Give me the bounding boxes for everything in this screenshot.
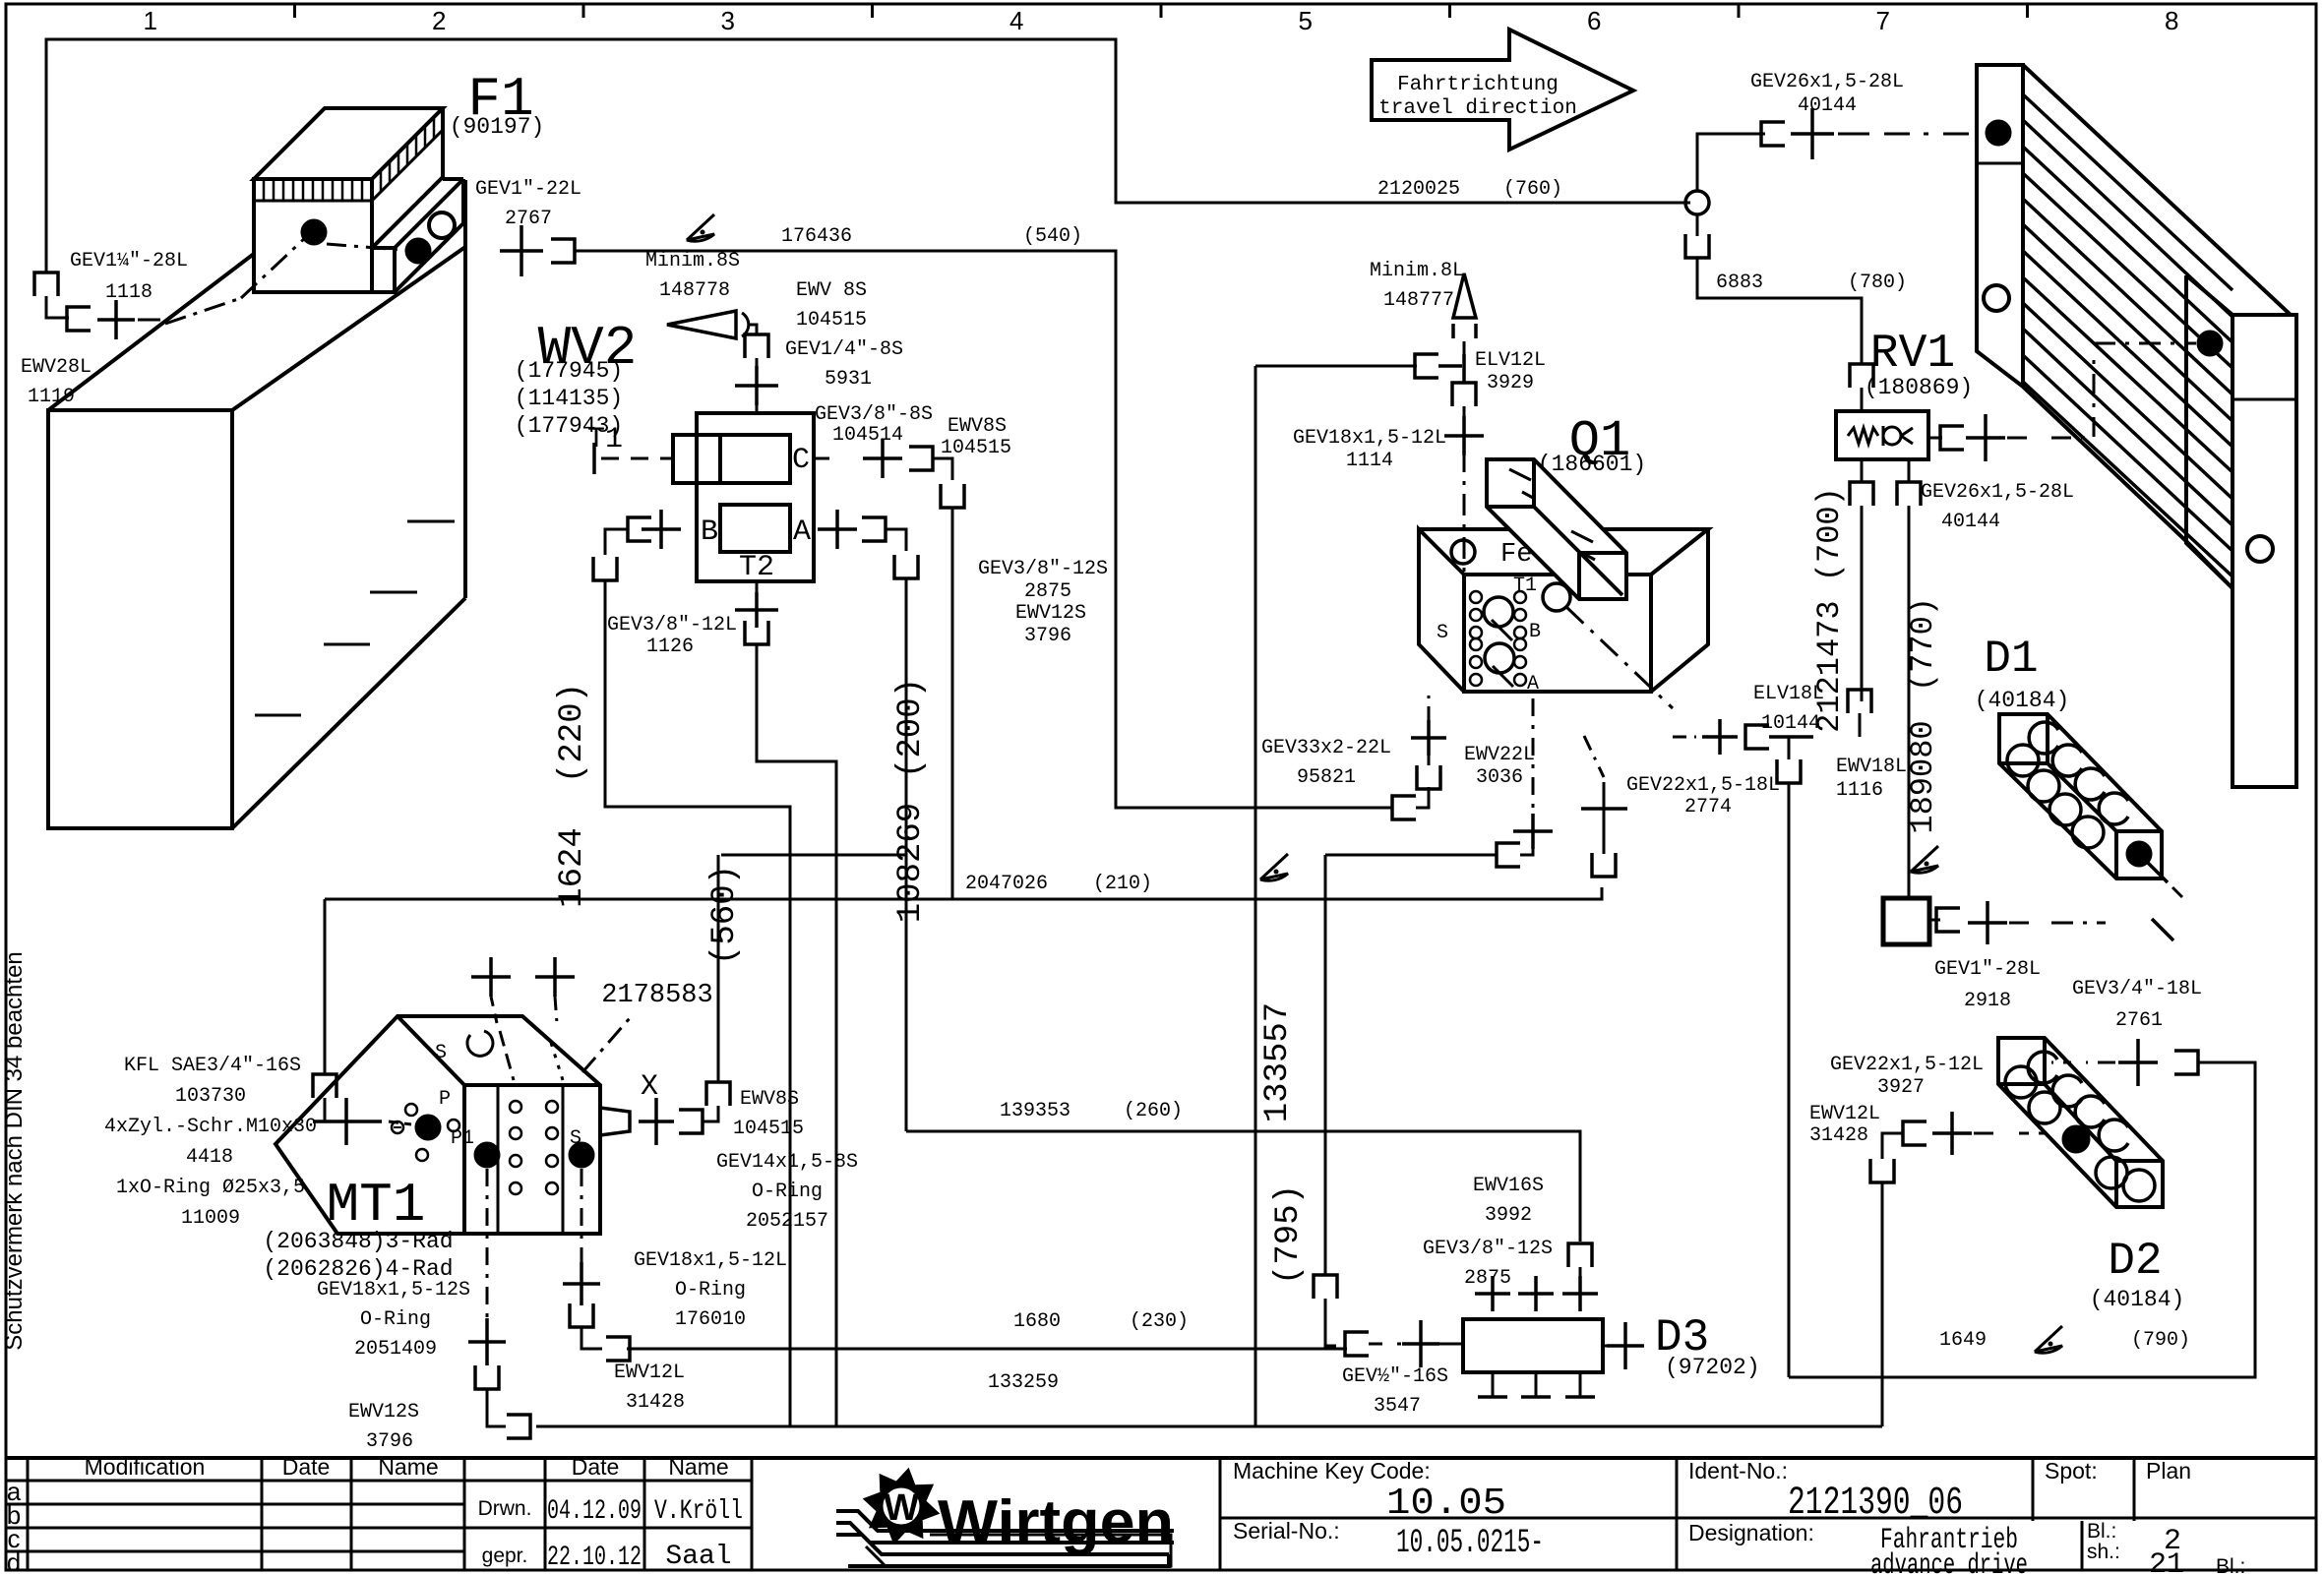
wire 189080 (770) [1908,506,1911,898]
tank top-right edge [232,247,465,410]
MT1 outline [275,1016,600,1234]
svg-text:148778: 148778 [659,279,730,302]
svg-text:(795): (795) [1270,1184,1308,1285]
wire T2 (560) [756,581,759,594]
svg-text:148777: 148777 [1383,289,1454,312]
WV2 divider [718,435,722,483]
fitting [1607,1322,1644,1369]
svg-text:GEV1"-22L: GEV1"-22L [475,178,581,201]
hydraulic tank [48,410,232,828]
wire [886,529,906,551]
svg-text:1119: 1119 [28,386,75,408]
svg-text:04.12.09: 04.12.09 [547,1496,642,1527]
svg-text:travel direction: travel direction [1378,97,1577,120]
wire [750,325,757,334]
svg-text:1114: 1114 [1346,450,1393,472]
wire X to 108269 [717,855,720,1082]
wire [1696,214,1699,236]
D2 clamps [2028,1052,2057,1083]
svg-text:A: A [793,515,811,549]
svg-text:1649: 1649 [1939,1329,1987,1352]
strip divider [1977,162,2023,165]
coupling [1897,482,1921,506]
svg-text:GEV3/8"-8S: GEV3/8"-8S [815,403,933,426]
svg-text:Bl.:: Bl.: [2216,1555,2245,1575]
svg-text:2: 2 [432,6,446,35]
svg-text:11009: 11009 [181,1207,240,1230]
svg-text:2052157: 2052157 [746,1210,828,1233]
coupling [628,517,651,541]
Q1 front face [1464,575,1651,692]
hatch band front [263,179,266,201]
svg-text:O-Ring: O-Ring [360,1308,431,1331]
coupling [1936,908,1960,932]
coupling [1417,765,1440,789]
svg-text:V.Kröll: V.Kröll [654,1496,743,1527]
svg-text:40144: 40144 [1941,511,2000,533]
dash-dot T1 to ELV18L [1566,607,1673,708]
svg-text:1624: 1624 [554,827,591,908]
port circle [429,212,455,238]
coupling [894,555,918,578]
P port dot [415,1115,441,1140]
svg-text:2047026: 2047026 [965,873,1048,895]
svg-text:3929: 3929 [1487,372,1534,394]
svg-text:EWV28L: EWV28L [21,356,92,379]
cooler bottom tip [2188,543,2232,588]
dash-dot to cooler lower port [2051,354,2094,438]
svg-text:EWV16S: EWV16S [1473,1175,1544,1197]
svg-text:GEV3/8"-12S: GEV3/8"-12S [1423,1238,1553,1260]
svg-text:2875: 2875 [1464,1267,1511,1290]
svg-text:1: 1 [144,6,157,35]
Q1 small bolt circles [1470,591,1482,603]
coupling [1497,843,1520,867]
WV2 lower position box [720,505,790,552]
wire to ELV12L [1255,365,1417,368]
svg-text:(177945): (177945) [515,358,623,384]
wire [1520,847,1533,855]
Q1 mounting bar [1487,459,1626,599]
cooler port circle [2247,536,2273,562]
svg-text:(40184): (40184) [1975,688,2070,713]
junction circle [1685,191,1709,214]
fitting GEV1-22L [500,225,543,276]
D2 side port dot [2062,1125,2090,1153]
svg-text:10.05: 10.05 [1386,1483,1506,1525]
Q1 left face [1419,529,1464,692]
svg-text:S: S [1437,622,1448,644]
svg-text:GEV3/4"-18L: GEV3/4"-18L [2072,978,2202,1000]
dash-dot to cooler [1838,133,1869,136]
svg-text:MT1: MT1 [327,1174,426,1237]
wire [703,1106,718,1121]
dash-dot into Q1 [1463,451,1466,574]
cooler hatch [2023,94,2232,576]
coupling [1415,354,1438,378]
svg-text:GEV22x1,5-12L: GEV22x1,5-12L [1830,1054,1984,1076]
fitting GEV22x1,5-18L [1702,719,1738,755]
travel direction arrow [1372,30,1633,150]
wire to (795) [1325,854,1497,857]
MT1 edge [462,1085,466,1234]
wire 2121473 (700) [1861,506,1864,701]
svg-text:Date: Date [282,1454,331,1480]
coupling EWV12L [606,1337,630,1361]
svg-text:6: 6 [1587,6,1601,35]
svg-text:(770): (770) [1905,597,1941,692]
D2 circles [2005,1066,2037,1098]
svg-text:GEV18x1,5-12L: GEV18x1,5-12L [1293,427,1446,450]
svg-text:7: 7 [1876,6,1890,35]
fitting GEV26x1,5-28L [1791,108,1834,159]
svg-text:133557: 133557 [1259,1002,1297,1122]
wire 176436 (540) [575,251,1392,808]
hatch band bottom [254,200,372,203]
coupling [1777,759,1801,783]
suction dash-dot line [165,298,241,324]
svg-text:EWV18L: EWV18L [1836,756,1907,778]
line from dot [2145,860,2168,882]
svg-text:EWV12L: EWV12L [1809,1103,1880,1125]
F1 front port dot [301,219,327,245]
svg-text:(180869): (180869) [1865,375,1973,400]
coupling [1392,796,1416,819]
svg-text:3547: 3547 [1374,1395,1421,1418]
wire [1882,1133,1903,1159]
svg-text:GEV14x1,5-8S: GEV14x1,5-8S [716,1151,858,1174]
ruler ticks [293,4,296,18]
svg-text:Minim.8S: Minim.8S [645,250,740,273]
svg-text:8: 8 [2165,6,2178,35]
svg-text:104515: 104515 [796,309,867,332]
D3 bottom ports [1492,1372,1495,1397]
coupling [1745,725,1769,749]
coupling [1452,383,1476,406]
svg-text:189080: 189080 [1905,720,1941,833]
coupling [1592,853,1616,877]
svg-text:2121473 (700): 2121473 (700) [1811,487,1848,733]
wire to top cooler port [1697,134,1765,191]
svg-text:95821: 95821 [1297,766,1356,789]
fitting GEV1/4-8S [735,366,778,405]
svg-text:GEV18x1,5-12L: GEV18x1,5-12L [634,1249,787,1272]
svg-text:2120025: 2120025 [1377,178,1460,201]
fitting GEV1-28L [1968,901,2007,944]
bar mark [1571,531,1593,542]
D3 right fitting [1603,1345,1608,1348]
coupling EWV8S [909,447,933,470]
coupling GEV26 [1761,122,1785,146]
svg-text:(790): (790) [2131,1329,2190,1352]
T1 dashes [592,443,596,474]
svg-text:C: C [792,444,810,477]
S drain line [581,1169,583,1265]
svg-text:GEV1"-28L: GEV1"-28L [1934,958,2041,981]
wire [1463,341,1466,354]
T1 port circle [1543,583,1570,611]
svg-text:D2: D2 [2108,1236,2162,1287]
svg-text:Name: Name [378,1454,438,1480]
svg-text:2051409: 2051409 [354,1338,437,1361]
svg-text:EWV22L: EWV22L [1464,744,1535,766]
coupling from (700) [1848,690,1871,713]
svg-text:GEV3/8"-12L: GEV3/8"-12L [607,614,737,636]
dash-dot [2051,922,2106,925]
dash-dot from Q1 A [1584,736,1604,777]
svg-text:Serial-No.:: Serial-No.: [1233,1518,1340,1544]
X port stub [600,1108,630,1135]
svg-text:103730: 103730 [175,1085,246,1108]
svg-text:GEV½"-16S: GEV½"-16S [1342,1365,1448,1388]
wire 1649 (790) [1789,1062,2255,1377]
fitting [735,592,778,628]
wire 2120025 (760) from tank return along top [46,39,1690,273]
cooler port circle [1984,285,2009,311]
svg-text:T2: T2 [739,551,774,584]
svg-text:P: P [439,1088,451,1111]
wire 133557 [1254,366,1257,1426]
MT1 divider [562,1085,565,1234]
coupling GEV1/2-16S [1345,1332,1369,1356]
fitting GEV18x1,5-12L [1444,416,1484,455]
wire [46,296,69,318]
MT1 divider [497,1085,500,1234]
svg-text:(97202): (97202) [1665,1355,1760,1380]
tank level marks [407,520,455,523]
svg-text:3992: 3992 [1485,1204,1532,1227]
svg-text:2767: 2767 [505,208,552,230]
svg-text:EWV12S: EWV12S [1015,602,1086,625]
Q1 top face [1419,529,1708,575]
view symbol [2035,1326,2062,1353]
svg-text:gepr.: gepr. [482,1545,528,1567]
RV1 outputs [1861,459,1864,482]
svg-text:2774: 2774 [1684,796,1732,818]
coupling [1940,426,1964,450]
D2 end circle [2123,1170,2155,1201]
svg-text:104515: 104515 [733,1118,804,1140]
svg-text:Schutzvermerk nach DIN 34 beac: Schutzvermerk nach DIN 34 beachten [1,951,28,1351]
wire down [1881,1182,1884,1426]
fitting [818,510,857,549]
cooler left strip [1977,65,2023,387]
svg-text:P1: P1 [451,1127,474,1150]
bus 1680 (230) [627,1348,1347,1351]
dash [2152,919,2173,940]
svg-text:GEV26x1,5-28L: GEV26x1,5-28L [1750,71,1904,93]
svg-text:Saal: Saal [665,1542,731,1572]
svg-text:6883: 6883 [1716,272,1763,294]
cooler core bottom edge [2023,387,2188,543]
A port circle [1485,643,1514,673]
WV2 body [697,413,814,581]
arrowhead [667,311,736,338]
svg-text:W: W [884,1487,919,1529]
svg-text:5931: 5931 [825,368,872,391]
Fe port circle [1451,540,1475,564]
coupling EWV28L [34,273,58,296]
svg-text:(780): (780) [1848,272,1907,294]
svg-text:1116: 1116 [1836,779,1883,802]
coupling EWV12S [507,1415,530,1438]
svg-text:2875: 2875 [1024,580,1071,603]
fitting [642,510,681,549]
svg-text:Plan: Plan [2146,1458,2191,1484]
svg-text:2178583: 2178583 [601,981,712,1010]
svg-text:40144: 40144 [1798,94,1857,117]
svg-text:1118: 1118 [105,281,153,304]
wire [1416,787,1429,808]
F1 lower box [372,248,395,292]
cooler right strip [2186,275,2232,588]
wire [1325,1299,1336,1346]
coupling KFL [313,1074,336,1098]
P1 port dot [474,1142,500,1168]
svg-text:133259: 133259 [988,1371,1059,1394]
svg-text:GEV33x2-22L: GEV33x2-22L [1261,737,1391,759]
svg-text:Ident-No.:: Ident-No.: [1688,1458,1788,1484]
title block [6,1456,2316,1460]
svg-text:GEV1¼"-28L: GEV1¼"-28L [70,250,188,273]
svg-text:B: B [701,515,718,549]
svg-text:4: 4 [1009,6,1023,35]
svg-text:B: B [1529,621,1541,643]
fitting [1513,814,1553,849]
D1 clamps [2029,722,2058,754]
coupling [1870,1159,1894,1182]
svg-text:3796: 3796 [1024,625,1071,647]
svg-text:(200): (200) [892,678,930,778]
view symbol [1260,854,1288,880]
Wirtgen logo [836,1468,1174,1566]
svg-text:Name: Name [668,1454,728,1480]
svg-text:GEV1/4"-8S: GEV1/4"-8S [785,338,903,361]
svg-text:139353: 139353 [1000,1100,1070,1122]
fitting GEV33x2-22L [1411,720,1446,756]
svg-text:(760): (760) [1503,178,1562,201]
svg-text:(186601): (186601) [1538,452,1646,477]
Q1 right face [1651,529,1708,692]
D1 circles [2007,745,2039,776]
fitting GEV14x1,5-8S [639,1098,674,1145]
wire 1624 (220) [605,580,790,1426]
view symbol [1911,846,1938,873]
coupling EWV8S [745,334,768,358]
coupling [475,1365,499,1389]
wire [933,458,952,480]
F1 main box [254,179,372,292]
B port circle [1484,597,1513,627]
wire C port [814,457,838,460]
termination square [1883,898,1929,944]
svg-text:advance drive: advance drive [1870,1549,2028,1575]
svg-text:Date: Date [572,1454,620,1480]
coupling [706,1082,730,1106]
coupling [593,557,617,580]
port dot [405,238,431,264]
D3 body [1463,1319,1603,1372]
view symbol [687,214,714,241]
D1 end port dot [2126,841,2152,867]
crosses above MT1 [471,957,511,997]
svg-text:2918: 2918 [1964,990,2011,1012]
wire 108269 (200) [721,578,906,855]
cooler right slab [2232,315,2296,787]
hatch band right side [372,108,443,201]
bar mark [1522,492,1533,498]
cooler top port dot [1986,120,2011,146]
svg-text:108269: 108269 [892,803,930,923]
wire 1649 (790) down [1788,783,1791,1377]
svg-text:EWV 8S: EWV 8S [796,279,867,302]
arrow Minim.8L [1453,273,1476,318]
cooler lower port dot [2197,331,2223,356]
coupling [67,307,91,331]
svg-text:5: 5 [1299,6,1313,35]
svg-text:ELV12L: ELV12L [1475,349,1546,372]
dash [2172,887,2182,897]
bus 2047026 (210) [325,887,1602,899]
fitting [1402,1320,1439,1367]
coupling [1850,364,1873,388]
svg-text:Fe: Fe [1500,540,1532,570]
svg-text:31428: 31428 [626,1391,685,1414]
svg-text:21: 21 [2149,1548,2184,1575]
svg-text:22.10.12: 22.10.12 [547,1543,642,1573]
coupling [570,1303,593,1327]
svg-text:RV1: RV1 [1870,328,1955,381]
svg-text:EWV12S: EWV12S [348,1401,419,1424]
wire to 139353 bus [905,855,908,1131]
svg-text:Minim.8L: Minim.8L [1370,260,1464,282]
fitting bar [344,1098,348,1145]
cooler top edge [2023,65,2291,315]
bus 133259 leak oil [536,1425,1882,1428]
svg-text:A: A [1527,673,1539,696]
svg-text:(114135): (114135) [515,386,623,411]
svg-text:Designation:: Designation: [1688,1520,1814,1545]
coupling [551,239,575,263]
D3 top ports [1475,1276,1510,1311]
svg-text:(540): (540) [1023,225,1082,248]
wire (795) [1324,855,1327,1275]
svg-text:d: d [7,1547,21,1575]
svg-text:176010: 176010 [675,1308,746,1331]
svg-text:(230): (230) [1130,1310,1189,1333]
tank back-right edge [463,180,467,598]
svg-text:EWV12L: EWV12L [614,1362,685,1384]
svg-text:104514: 104514 [832,424,903,447]
coupling [1850,482,1873,506]
svg-text:Fahrtrichtung: Fahrtrichtung [1397,74,1559,96]
fitting GEV18x1,5-12L [563,1262,600,1305]
svg-text:Drwn.: Drwn. [478,1497,532,1520]
svg-text:176436: 176436 [781,225,852,248]
bar mark [1584,554,1595,560]
svg-text:1680: 1680 [1013,1310,1061,1333]
coupling [1903,1121,1926,1145]
svg-text:2761: 2761 [2115,1009,2163,1032]
RV1 right fitting [1928,437,1942,440]
bus 139353 (260) [906,1131,1580,1242]
svg-text:4418: 4418 [186,1146,233,1169]
RV1 spring and check [1848,428,1878,444]
svg-text:Machine Key Code:: Machine Key Code: [1233,1458,1431,1484]
fitting GEV18x1,5-12S [468,1318,506,1365]
MT1 bolt circles [510,1101,521,1113]
F1 back edge [441,108,445,177]
